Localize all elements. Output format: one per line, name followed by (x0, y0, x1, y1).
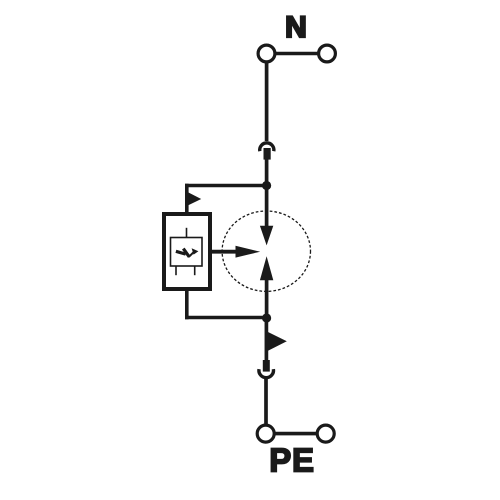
terminal PE right (317, 425, 334, 442)
wire N down to disconnect plug (265, 62, 269, 141)
trigger arrow head (236, 246, 261, 258)
disconnect flag lower (268, 332, 287, 351)
plug contact arc top (260, 143, 274, 151)
terminal N right (319, 45, 336, 62)
trigger element bottom pin 1 (175, 266, 177, 275)
plug contact arc bottom (259, 369, 274, 378)
svg-text:N: N (285, 11, 307, 44)
plug pin top (264, 148, 271, 160)
wire N terminals (276, 52, 319, 56)
trigger element inner box (171, 238, 203, 267)
surge flash symbol (176, 248, 199, 257)
wire node B to left branch (185, 316, 267, 320)
trigger element top pin (186, 228, 188, 238)
junction node A (262, 181, 271, 190)
spark gap dashed circle (222, 211, 310, 291)
wire node A to left branch (185, 184, 267, 188)
trigger arrow line (211, 250, 238, 254)
wire node B to plug bottom (265, 318, 269, 361)
terminal N left (258, 45, 275, 62)
wire plug bottom to PE terminal (264, 379, 268, 425)
spark gap electrode lower (260, 256, 273, 280)
wire left branch down to trigger box (185, 184, 189, 215)
plug pin bottom (263, 360, 270, 372)
wire PE terminals (275, 432, 318, 436)
trigger element bottom pin 2 (194, 266, 196, 275)
terminal PE left (257, 425, 274, 442)
wire node A to spark gap (265, 186, 269, 233)
svg-text:PE: PE (269, 442, 315, 479)
trigger unit box U1 (164, 214, 210, 289)
spark gap electrode upper (260, 226, 273, 246)
wire plug to node A (265, 159, 269, 187)
wire spark gap to node B (265, 274, 269, 318)
disconnect flag upper (188, 192, 201, 205)
wire trigger box bottom to node B branch (185, 289, 189, 319)
junction node B (262, 313, 271, 322)
